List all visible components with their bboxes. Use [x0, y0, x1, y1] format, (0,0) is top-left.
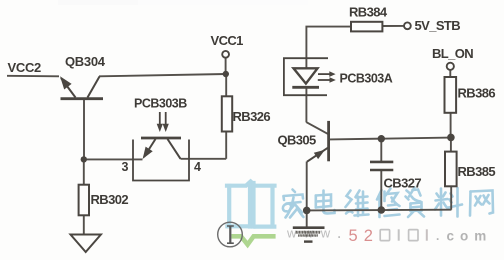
家: [283, 190, 304, 218]
svg-text:CB327: CB327: [384, 176, 422, 191]
node emitter rail junction: [303, 207, 311, 215]
svg-text:5V_STB: 5V_STB: [415, 18, 461, 33]
svg-text:RB386: RB386: [458, 86, 496, 101]
node base/RB302 junction: [81, 156, 87, 162]
wire QB305 base to node: [330, 138, 451, 140]
wire LED cathode: [305, 89, 307, 123]
resistor RB385: [445, 152, 457, 187]
wire node to pin3: [84, 158, 143, 160]
svg-text:.: .: [338, 227, 341, 241]
node VCC1/RB326 junction: [223, 71, 229, 77]
node base/CB327 junction: [378, 135, 385, 142]
料: [435, 188, 462, 217]
wire LED anode inside box: [305, 58, 307, 68]
wire QB305 emitter down: [306, 162, 308, 227]
wire CB327 bottom lead: [380, 170, 382, 210]
optocoupler PCB303B light arrows: [157, 112, 169, 132]
terminal BL_ON: [447, 63, 454, 70]
wire RB384 right: [382, 25, 404, 27]
svg-text:4: 4: [194, 160, 201, 174]
wire QB304 collector to VCC1 node: [99, 74, 226, 76]
wire bottom rail: [307, 209, 452, 212]
watermark green swoosh: [232, 236, 276, 244]
wire CB327 top lead: [380, 139, 382, 162]
svg-text:QB305: QB305: [278, 133, 317, 148]
svg-text:PCB303A: PCB303A: [340, 72, 393, 86]
chassis ground: [293, 228, 325, 242]
wire pin4 to RB326: [181, 158, 227, 160]
svg-text:VCC1: VCC1: [211, 33, 244, 48]
watermark text 家电维修资料网: [283, 188, 493, 218]
电: [316, 191, 335, 214]
svg-text:2: 2: [364, 227, 373, 245]
wire VCC1 lead: [225, 58, 227, 74]
wire QB304 base lead: [83, 100, 85, 159]
LED PCB303A: [292, 68, 319, 87]
terminal VCC1: [222, 51, 229, 58]
wire RB385 top lead: [450, 137, 452, 151]
wire VCC2 stub: [7, 75, 59, 78]
scan smudge top: [58, 0, 138, 5]
svg-text:RB385: RB385: [458, 164, 496, 179]
resistor RB384: [351, 22, 382, 32]
node RB386/RB385 junction: [447, 134, 455, 142]
watermark circled I stamp: [218, 222, 243, 247]
optocoupler PCB303B body box: [133, 140, 189, 181]
wire RB385 bottom lead: [450, 186, 452, 209]
wire QB305 collector diagonal: [306, 122, 328, 134]
svg-text:RB384: RB384: [349, 5, 388, 20]
wire BL_ON lead: [449, 70, 451, 77]
维: [346, 191, 369, 217]
svg-text:3: 3: [122, 160, 129, 174]
svg-text:BL_ON: BL_ON: [432, 46, 473, 61]
capacitor CB327: [370, 162, 393, 170]
网: [470, 191, 493, 216]
transistor QB304: [60, 76, 103, 98]
svg-text:RB302: RB302: [91, 192, 129, 207]
修: [377, 189, 400, 218]
resistor RB386: [445, 77, 457, 113]
node CB327 bottom junction: [378, 206, 386, 214]
wire RB326 bottom lead: [225, 132, 227, 159]
wire RB386 bottom lead: [450, 113, 452, 138]
LED light arrows: [318, 71, 336, 83]
wire RB384 left: [306, 27, 351, 59]
transistor QB305: [307, 121, 329, 162]
svg-text:PCB303B: PCB303B: [134, 97, 187, 111]
terminal 5V_STB: [404, 22, 411, 29]
svg-text:com: com: [447, 229, 493, 244]
ground triangle: [71, 235, 101, 253]
wire RB302 top lead: [83, 159, 85, 184]
svg-text:5: 5: [349, 227, 358, 245]
resistor RB302: [79, 185, 89, 216]
wire RB326 top lead: [225, 74, 227, 96]
svg-text:.: .: [436, 229, 439, 243]
svg-text:QB304: QB304: [65, 54, 106, 69]
svg-text:RB326: RB326: [233, 109, 271, 124]
optocoupler PCB303A body box (open right): [284, 58, 328, 95]
svg-text:VCC2: VCC2: [8, 60, 42, 75]
resistor RB326: [222, 96, 232, 131]
watermark book logo: [227, 182, 275, 227]
资: [406, 188, 425, 218]
watermark url www.520101.com: [286, 226, 492, 246]
phototransistor PCB303B: [141, 138, 181, 159]
wire RB302 bottom lead: [83, 215, 85, 234]
